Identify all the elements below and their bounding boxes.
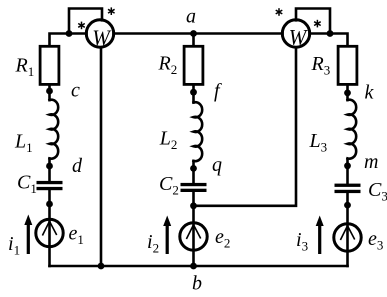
svg-text:c: c bbox=[71, 80, 80, 102]
capacitor C1 bbox=[37, 181, 63, 190]
wire W2 voltage loop bbox=[296, 9, 330, 35]
node k dot bbox=[344, 90, 351, 97]
wire R2 bottom to L2 bbox=[192, 84, 195, 102]
source e2 bbox=[180, 223, 207, 250]
node junction dot W2 loop bbox=[327, 30, 334, 37]
resistor R2 bbox=[184, 46, 203, 84]
resistor R1 bbox=[40, 46, 59, 84]
source e3 bbox=[334, 224, 361, 251]
capacitor C2 bbox=[181, 183, 207, 192]
current arrow i2 bbox=[163, 216, 171, 255]
svg-text:m: m bbox=[364, 151, 378, 173]
wire C2 through e2 to bottom rail bbox=[192, 192, 195, 266]
wire bottom rail bbox=[50, 265, 348, 268]
capacitor C3 bbox=[335, 184, 361, 194]
inductor L3 bbox=[348, 100, 357, 159]
node dot below C2 bbox=[190, 202, 197, 209]
wire top middle W1 to W2 bbox=[114, 32, 283, 35]
node b dot bbox=[190, 263, 197, 270]
svg-text:q: q bbox=[212, 154, 222, 176]
wire L3 to C3 bbox=[346, 159, 349, 184]
svg-text:a: a bbox=[186, 6, 196, 28]
svg-text:d: d bbox=[72, 155, 83, 177]
svg-text:b: b bbox=[192, 273, 202, 295]
wire L1 to C1 bbox=[48, 159, 51, 182]
wire C3 through e3 to bottom rail bbox=[346, 193, 349, 266]
wattmeter U1 (left W) bbox=[86, 20, 113, 47]
source e1 bbox=[36, 219, 63, 246]
node a dot bbox=[190, 30, 197, 37]
svg-text:W: W bbox=[92, 25, 111, 50]
asterisk W2 top-left bbox=[276, 8, 283, 16]
inductor L2 bbox=[194, 102, 203, 161]
node dot below C1 bbox=[46, 201, 53, 208]
asterisk W2 right bbox=[314, 20, 321, 28]
wire W2 down then left to node below C2 bbox=[197, 48, 296, 206]
node junction dot W1 loop bbox=[66, 30, 73, 37]
wire W1 down to bottom rail bbox=[100, 48, 103, 266]
node f dot bbox=[190, 89, 197, 96]
node m dot bbox=[344, 162, 351, 169]
wire top-left from R1 to W1 bbox=[50, 34, 87, 47]
wire L2 to C2 bbox=[192, 161, 195, 183]
wire top-right W2 to R3 bbox=[310, 34, 348, 47]
wattmeter U2 (right W) bbox=[282, 20, 309, 47]
asterisk W1 left bbox=[78, 22, 85, 30]
svg-text:k: k bbox=[365, 82, 375, 104]
node c dot bbox=[46, 88, 53, 95]
wire W1 voltage loop bbox=[69, 9, 102, 35]
current arrow i3 bbox=[316, 216, 324, 255]
node q dot bbox=[190, 165, 197, 172]
wire R3 bottom to L3 bbox=[346, 84, 349, 100]
node dot bottom rail W1 bbox=[98, 263, 105, 270]
wire C1 through e1 to bottom rail bbox=[48, 190, 51, 266]
wire node a to R2 bbox=[192, 34, 195, 47]
svg-text:W: W bbox=[289, 24, 308, 49]
current arrow i1 bbox=[24, 215, 32, 255]
node dot below C3 bbox=[344, 202, 351, 209]
resistor R3 bbox=[338, 46, 357, 84]
asterisk W1 top-right bbox=[108, 7, 115, 15]
wire R1 bottom to L1 bbox=[48, 84, 51, 100]
inductor L1 bbox=[50, 100, 59, 159]
node d dot bbox=[46, 163, 53, 170]
